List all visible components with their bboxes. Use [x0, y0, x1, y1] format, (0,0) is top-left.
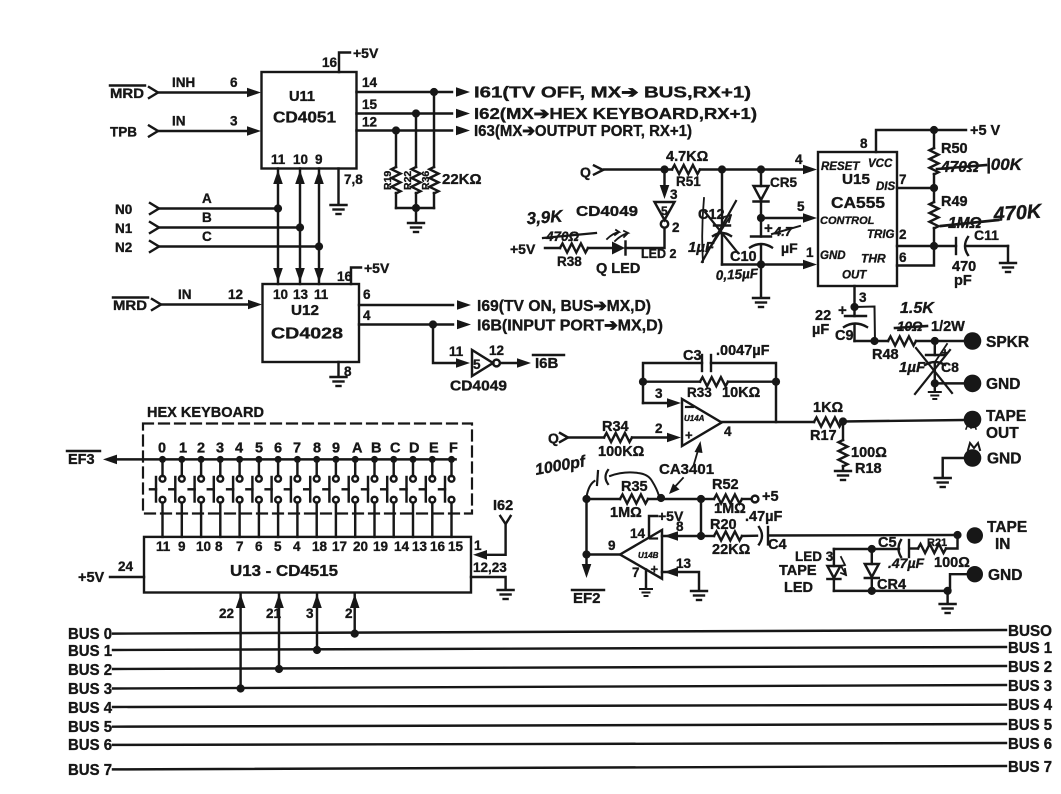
switch key D: [401, 456, 417, 537]
svg-text:13: 13: [412, 539, 428, 554]
svg-text:CA555: CA555: [831, 195, 885, 212]
svg-text:1: 1: [474, 538, 482, 553]
svg-text:7: 7: [236, 539, 244, 554]
svg-text:5: 5: [661, 204, 668, 218]
svg-text:CD4049: CD4049: [450, 379, 507, 395]
junction A column: [274, 204, 282, 212]
svg-text:14: 14: [630, 526, 646, 541]
ground (R18): [835, 471, 851, 480]
svg-text:TPB: TPB: [110, 125, 137, 140]
svg-text:16: 16: [337, 269, 353, 284]
wire EF2 column: [585, 499, 587, 565]
wire U12 pin6 to I69: [359, 304, 453, 306]
wire N1 (B): [160, 226, 300, 228]
svg-text:R51: R51: [676, 174, 701, 189]
svg-text:BUS 3: BUS 3: [1008, 678, 1052, 695]
junction R52/R20/pin8: [697, 532, 705, 540]
switch key E: [420, 456, 436, 537]
junction pin3/C9/jumper: [850, 303, 858, 311]
svg-text:22: 22: [219, 606, 234, 621]
wire U11 pin14 to I61: [357, 91, 453, 93]
U15 pin 7 wire: [897, 187, 934, 189]
svg-text:2: 2: [655, 421, 663, 436]
svg-text:1/2W: 1/2W: [931, 319, 965, 335]
svg-text:B: B: [371, 441, 381, 457]
svg-text:BUS 4: BUS 4: [68, 700, 112, 717]
resistor R51 4.7K: [672, 165, 700, 174]
wire +5V to U13 pin 24: [110, 576, 144, 578]
svg-text:8: 8: [215, 539, 223, 554]
svg-text:INH: INH: [172, 75, 195, 90]
svg-text:13: 13: [293, 287, 309, 302]
wire R51 to U15 pin 4: [700, 168, 806, 170]
svg-text:10: 10: [293, 152, 308, 167]
svg-text:+5V: +5V: [364, 260, 390, 276]
junction 1000pf tap: [657, 494, 665, 502]
U13 pin 1 wire from I62: [485, 524, 506, 555]
wire U13 pins 12,23 to ground: [471, 577, 506, 589]
terminal TAPE OUT: [964, 411, 982, 429]
handwritten X over C8: [916, 348, 952, 393]
svg-text:5: 5: [797, 199, 805, 214]
svg-text:8: 8: [676, 519, 684, 534]
arrow CA3401 to U14B: [672, 478, 683, 490]
U14B pin 13 wire: [662, 572, 699, 590]
svg-text:5: 5: [473, 357, 481, 372]
svg-text:14: 14: [394, 539, 410, 554]
svg-text:R49: R49: [941, 194, 968, 210]
resistor R19 (22K pullup on I63): [395, 131, 397, 168]
svg-text:IN: IN: [178, 287, 192, 302]
svg-text:.47µF: .47µF: [745, 509, 783, 525]
svg-text:10: 10: [196, 539, 211, 554]
U14B pin 7 stem: [645, 570, 647, 589]
svg-text:11: 11: [156, 539, 171, 554]
junction pin2/R49/C11: [930, 242, 938, 250]
ground (pin 13): [691, 591, 707, 600]
LED3 lightning mark: [841, 557, 846, 575]
svg-text:MRD: MRD: [113, 298, 147, 313]
svg-text:RESET: RESET: [821, 161, 860, 173]
resistor R20: [701, 535, 714, 537]
svg-text:.0047µF: .0047µF: [716, 343, 770, 359]
svg-text:4: 4: [293, 539, 301, 554]
wire Q to CD4049 inverter (LED driver): [663, 170, 665, 187]
wire U13 pin 21 from BUS 2: [278, 594, 280, 669]
svg-text:13: 13: [676, 556, 692, 571]
switch key F: [439, 456, 455, 537]
svg-text:C10: C10: [730, 249, 757, 265]
svg-text:CONTROL: CONTROL: [820, 215, 875, 227]
svg-text:12: 12: [489, 343, 504, 358]
junction CR4 bottom: [868, 587, 876, 595]
svg-text:9: 9: [608, 538, 616, 553]
U11 pin 16 notch wire to +5V: [339, 53, 350, 73]
svg-text:7,8: 7,8: [344, 172, 363, 187]
svg-text:R34: R34: [602, 419, 629, 435]
arrow CA3401 to U14A: [694, 447, 699, 464]
svg-text:I62(MX➔HEX KEYBOARD,RX+1): I62(MX➔HEX KEYBOARD,RX+1): [474, 106, 757, 123]
svg-text:LED: LED: [784, 580, 813, 596]
svg-text:EF3: EF3: [68, 452, 95, 468]
wire pin 9: [587, 553, 621, 555]
svg-text:C11: C11: [974, 227, 999, 243]
svg-text:7: 7: [293, 441, 301, 457]
wire MRD to U12 pin 12: [162, 303, 251, 305]
wire I6B tap to inverter input: [433, 325, 458, 364]
svg-text:R19: R19: [382, 171, 394, 190]
svg-text:N2: N2: [115, 240, 132, 255]
wire N2 (C): [160, 245, 319, 247]
svg-text:3: 3: [655, 386, 663, 401]
svg-text:SPKR: SPKR: [986, 334, 1029, 351]
svg-text:HEX KEYBOARD: HEX KEYBOARD: [147, 404, 264, 421]
svg-text:22KΩ: 22KΩ: [712, 542, 751, 558]
svg-text:4: 4: [235, 441, 243, 457]
junction Q/inverter: [660, 165, 668, 173]
svg-text:CD4028: CD4028: [271, 326, 343, 343]
ground U12 pin 8: [337, 362, 339, 376]
ground (tape in): [946, 591, 948, 603]
junction C column: [315, 242, 323, 250]
svg-text:EF2: EF2: [573, 590, 601, 607]
svg-text:+5V: +5V: [353, 45, 379, 61]
svg-text:CD4049: CD4049: [576, 204, 638, 220]
svg-text:8: 8: [313, 441, 321, 457]
svg-text:6: 6: [230, 75, 238, 90]
capacitor C11: [955, 238, 957, 254]
LED 3 diode: [833, 549, 835, 566]
svg-text:E: E: [429, 441, 439, 457]
svg-text:8: 8: [860, 136, 868, 151]
wire TAPE IN to R21: [946, 535, 958, 549]
svg-text:C8: C8: [941, 359, 959, 375]
svg-text:1µF: 1µF: [688, 239, 715, 256]
svg-text:1MΩ: 1MΩ: [714, 501, 746, 517]
capacitor C4: [759, 527, 762, 544]
IC U11 box: [262, 72, 357, 169]
svg-text:3: 3: [859, 290, 867, 305]
wire to U15 pin 5: [761, 217, 806, 219]
junction C10 bottom: [757, 260, 765, 268]
svg-text:BUS 2: BUS 2: [68, 662, 112, 679]
svg-text:11: 11: [271, 152, 286, 167]
junction I61/R36: [430, 88, 438, 96]
wire R17 to TAPE OUT: [843, 420, 963, 422]
junction pin7/R50/R49: [930, 184, 938, 192]
switch key 6: [266, 456, 282, 537]
junction ground rail: [944, 587, 952, 595]
wire LED2 to inverter output: [626, 228, 665, 248]
diode CR4: [871, 549, 873, 564]
wire MRD to U11 pin 6: [159, 91, 250, 93]
svg-text:0: 0: [158, 441, 166, 457]
IC U13 box: [144, 537, 471, 593]
capacitor C3 feedback loop wire: [643, 363, 702, 403]
svg-text:GND: GND: [820, 250, 846, 262]
resistor R33: [643, 380, 700, 382]
switch key 2: [189, 456, 205, 537]
svg-text:B: B: [202, 210, 212, 225]
terminal SPKR: [964, 332, 982, 350]
junction R17/R18: [839, 417, 847, 425]
svg-text:DIS: DIS: [876, 181, 896, 193]
svg-text:21: 21: [266, 606, 282, 621]
resistor R35: [587, 498, 621, 500]
svg-text:BUS 5: BUS 5: [1008, 717, 1052, 734]
wire GND terminal to rail: [950, 574, 966, 591]
svg-text:BUS 4: BUS 4: [1008, 697, 1052, 714]
svg-text:10KΩ: 10KΩ: [722, 385, 761, 401]
svg-text:|00K: |00K: [986, 155, 1024, 174]
junction CR5/C10/pin5: [757, 214, 765, 222]
dashed keyboard outline: [143, 424, 472, 514]
wire EF3 keyboard common rail: [117, 458, 456, 460]
svg-text:I63(MX➔OUTPUT PORT, RX+1): I63(MX➔OUTPUT PORT, RX+1): [474, 123, 692, 140]
terminal GND (tape in): [967, 566, 983, 582]
ground U11 pins 7,8: [337, 169, 339, 205]
wire LED3/CR4 bottom rail: [834, 590, 950, 592]
svg-text:1µF: 1µF: [899, 359, 926, 376]
svg-text:24: 24: [118, 559, 134, 574]
svg-text:9: 9: [315, 152, 323, 167]
resistor R48: [888, 337, 916, 346]
svg-text:5: 5: [255, 441, 263, 457]
svg-text:4: 4: [724, 424, 732, 439]
resistor R38: [545, 247, 560, 249]
svg-text:A: A: [202, 191, 212, 206]
svg-text:A: A: [352, 441, 363, 457]
svg-text:GND: GND: [986, 376, 1020, 393]
junction R50 top: [930, 126, 938, 134]
svg-text:+: +: [651, 562, 659, 577]
svg-text:BUS 5: BUS 5: [68, 719, 112, 736]
svg-text:1KΩ: 1KΩ: [813, 400, 844, 416]
svg-text:pF: pF: [954, 273, 972, 289]
svg-text:R38: R38: [557, 254, 582, 269]
svg-text:1MΩ: 1MΩ: [610, 505, 642, 521]
svg-text:.47µF: .47µF: [888, 555, 925, 571]
svg-text:+5: +5: [762, 489, 779, 505]
svg-text:+5V: +5V: [510, 241, 536, 257]
switch key B: [362, 456, 378, 537]
svg-text:12: 12: [228, 287, 243, 302]
wire TAPE OUT GND to ground: [943, 458, 963, 477]
svg-text:µF: µF: [812, 322, 829, 338]
svg-text:BUS 6: BUS 6: [1008, 736, 1052, 753]
svg-text:6: 6: [363, 287, 371, 302]
op-amp U14B triangle (points left): [620, 530, 662, 579]
junction TAPE IN: [953, 531, 961, 539]
svg-text:4: 4: [795, 152, 803, 167]
wire GND row to U15 pin 1: [722, 263, 806, 265]
capacitor C12 (crossed out) column: [721, 170, 723, 226]
switch key 1: [169, 456, 185, 537]
ground (pin 7): [640, 589, 652, 596]
svg-text:MRD: MRD: [110, 86, 144, 101]
svg-text:U12: U12: [291, 302, 319, 319]
svg-text:100Ω: 100Ω: [934, 555, 970, 571]
svg-text:16: 16: [430, 539, 446, 554]
svg-text:GND: GND: [988, 567, 1022, 584]
resistor R34: [604, 433, 632, 442]
U15 pin 8 wire to +5V: [876, 130, 966, 152]
svg-text:10: 10: [273, 287, 288, 302]
svg-text:4.7KΩ: 4.7KΩ: [666, 149, 709, 165]
svg-text:16: 16: [322, 55, 338, 70]
svg-text:Q: Q: [580, 164, 591, 180]
junction R33 left: [639, 378, 647, 386]
svg-text:BUS 1: BUS 1: [1008, 640, 1052, 657]
svg-text:15: 15: [448, 539, 464, 554]
svg-text:R33: R33: [687, 385, 712, 400]
svg-text:12: 12: [362, 115, 377, 130]
junction R33 right: [772, 378, 780, 386]
svg-text:I62: I62: [493, 498, 513, 514]
junction CR5 column: [757, 165, 765, 173]
svg-text:+5 V: +5 V: [970, 123, 1001, 139]
svg-text:0,15µF: 0,15µF: [715, 266, 759, 283]
LED 2 diode: [612, 242, 625, 255]
IC U12 box: [263, 284, 360, 362]
wire U14A out to R17: [722, 421, 814, 423]
LED2 handwritten arrow mark: [607, 230, 619, 239]
svg-text:U13 - CD4515: U13 - CD4515: [230, 563, 338, 580]
svg-text:CA3401: CA3401: [659, 461, 714, 478]
resistor R18: [842, 422, 844, 441]
IC U15 CA555 box: [818, 152, 897, 286]
junction I63/R19: [392, 126, 400, 134]
svg-text:R48: R48: [872, 347, 899, 363]
svg-text:1: 1: [806, 245, 814, 260]
svg-text:17: 17: [332, 539, 347, 554]
wire Q to R51: [604, 168, 672, 170]
svg-text:100KΩ: 100KΩ: [598, 444, 645, 460]
handwritten M marks: [966, 424, 976, 429]
switch key 7: [285, 456, 301, 537]
wire U11 pin12 to I63: [357, 129, 453, 131]
junction I6B inverter tap: [429, 320, 437, 328]
U15 pin 3 wire: [853, 286, 855, 307]
wire C8 to GND terminal: [935, 382, 963, 384]
svg-text:BUS 0: BUS 0: [68, 626, 112, 643]
wire C4 to TAPE IN: [770, 534, 958, 537]
svg-text:U15: U15: [842, 171, 870, 188]
U15 pin 6 wire: [897, 246, 934, 266]
wire C9 to R48: [855, 340, 889, 342]
handwritten jumper across C9: [855, 307, 876, 342]
wire junction column: [700, 499, 702, 536]
svg-text:5: 5: [274, 539, 282, 554]
wire resistor commons: [396, 207, 434, 209]
svg-text:µF: µF: [781, 240, 798, 256]
wire Q to R34: [569, 436, 604, 438]
svg-text:R18: R18: [855, 461, 882, 477]
svg-text:TAPE: TAPE: [779, 563, 817, 579]
svg-text:7: 7: [899, 172, 907, 187]
svg-text:R21: R21: [927, 537, 947, 549]
svg-text:OUT: OUT: [842, 270, 867, 282]
wire inverter out to I6B-bar: [500, 362, 518, 364]
svg-text:I6B: I6B: [535, 355, 559, 372]
svg-text:CR5: CR5: [770, 175, 797, 190]
svg-text:N0: N0: [115, 202, 132, 217]
svg-text:U14A: U14A: [684, 414, 705, 423]
ground (C11): [1007, 246, 1009, 262]
svg-text:3: 3: [670, 187, 678, 202]
svg-text:R50: R50: [941, 141, 968, 157]
svg-text:2: 2: [672, 220, 680, 235]
wire U11 pin10 to U12 pin13 (B column): [299, 169, 301, 285]
svg-text:C: C: [390, 441, 401, 457]
switch key A: [343, 456, 359, 537]
op-amp U14A triangle: [682, 399, 722, 446]
U14B pin 14 +5V notch: [649, 516, 657, 537]
svg-text:OUT: OUT: [986, 425, 1019, 442]
svg-text:U11: U11: [289, 88, 315, 105]
svg-text:BUS 1: BUS 1: [68, 643, 112, 660]
svg-text:U14B: U14B: [638, 551, 659, 560]
switch key 3: [208, 456, 224, 537]
ground (R19/R22/R36): [415, 208, 417, 222]
svg-text:Q LED: Q LED: [596, 261, 640, 277]
switch key C: [381, 456, 397, 537]
wire U11 pin11 to U12 pin10 (A column): [277, 169, 279, 285]
svg-text:20: 20: [353, 539, 368, 554]
svg-text:C4: C4: [768, 537, 787, 553]
svg-text:11: 11: [314, 287, 329, 302]
svg-text:CD4051: CD4051: [273, 110, 336, 127]
svg-text:BUS 2: BUS 2: [1008, 659, 1052, 676]
svg-text:3: 3: [306, 606, 314, 621]
svg-text:TRIG: TRIG: [867, 229, 895, 241]
svg-text:2: 2: [197, 441, 205, 457]
svg-text:100Ω: 100Ω: [851, 445, 887, 461]
inverter gate (CD4049 LED driver): [655, 202, 675, 220]
svg-text:R52: R52: [712, 477, 739, 493]
svg-text:BUS 7: BUS 7: [1008, 759, 1052, 776]
junction C8 bottom: [931, 379, 939, 387]
svg-text:I61(TV OFF, MX➔ BUS,RX+1): I61(TV OFF, MX➔ BUS,RX+1): [474, 85, 751, 102]
junction CR4 top: [868, 545, 876, 553]
wire U13 pin 2 from BUS 0: [353, 594, 355, 634]
wire U13 pin 3 from BUS 1: [316, 594, 318, 650]
terminal GND (SPKR): [964, 375, 982, 393]
wire U12 pin4 to I6B: [359, 323, 453, 325]
junction B column: [296, 223, 304, 231]
svg-text:3: 3: [230, 114, 238, 129]
svg-text:1.5K: 1.5K: [900, 300, 935, 317]
svg-text:6: 6: [274, 441, 282, 457]
svg-text:3: 3: [216, 441, 224, 457]
U12 pin 16 notch wire to +5V: [351, 268, 361, 285]
terminal +5 (open circle): [752, 496, 759, 503]
svg-text:I6B(INPUT PORT➔MX,D): I6B(INPUT PORT➔MX,D): [477, 318, 663, 335]
capacitor C8 (crossed out): [934, 341, 936, 355]
svg-text:18: 18: [312, 539, 328, 554]
svg-text:1: 1: [179, 441, 187, 457]
U14B minus input: [650, 537, 657, 539]
wire U11 pin9 to U12 pin11 (C column): [318, 169, 320, 285]
svg-text:GND: GND: [987, 451, 1021, 468]
handwritten X over C12: [702, 201, 736, 262]
resistor R22 (22K pullup on I62): [415, 114, 417, 168]
svg-text:14: 14: [362, 75, 378, 90]
svg-text:IN: IN: [172, 114, 186, 129]
svg-text:C3: C3: [683, 348, 702, 364]
wire R48 to SPKR: [935, 340, 963, 342]
wire R38 to LED2: [588, 247, 612, 249]
